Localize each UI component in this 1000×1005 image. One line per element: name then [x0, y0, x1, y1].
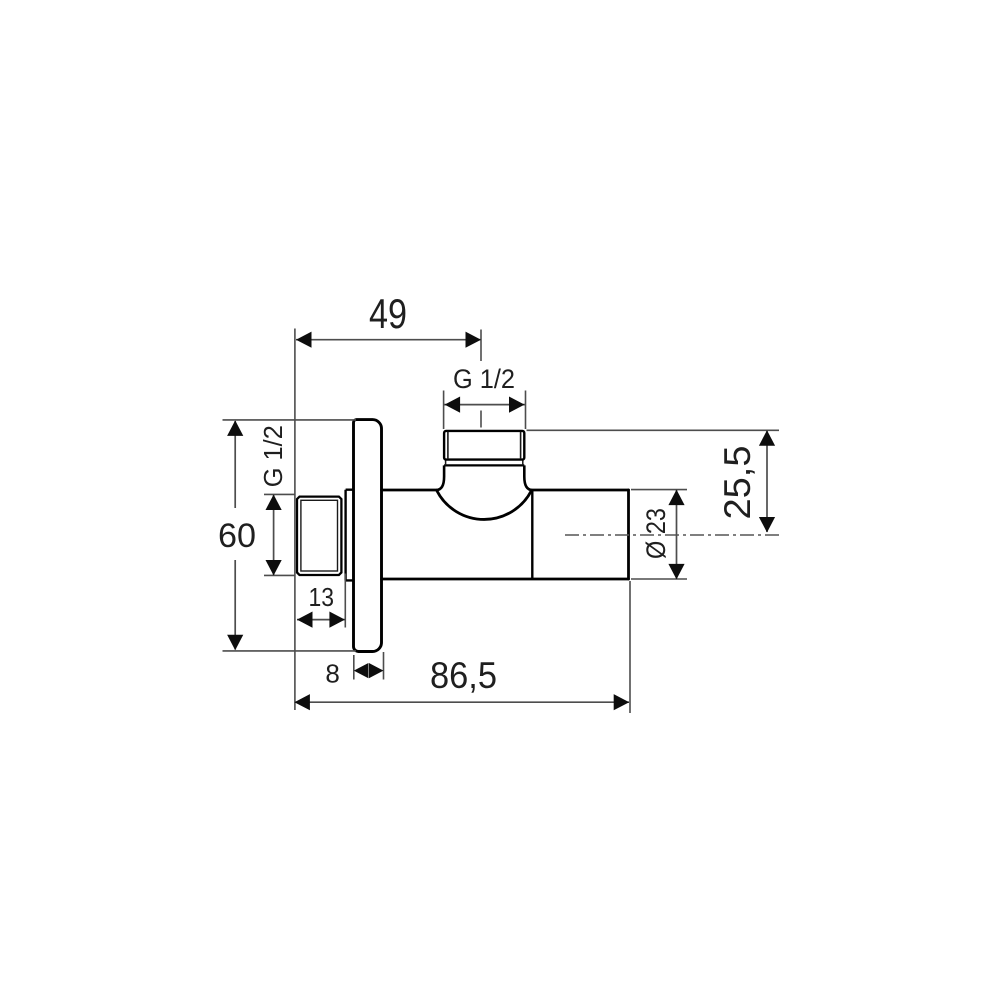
collar behind flange — [346, 490, 354, 581]
dim 13 arrow right — [329, 612, 345, 628]
svg-text:25,5: 25,5 — [717, 446, 758, 520]
dim 86,5 arrow right — [614, 694, 630, 710]
svg-text:Ø 23: Ø 23 — [641, 508, 671, 559]
dim 49 arrow right — [466, 332, 482, 348]
neck right with fillet — [524, 465, 532, 490]
neck left with fillet — [436, 465, 444, 490]
centerline dash-dot — [565, 534, 780, 536]
svg-text:G 1/2: G 1/2 — [453, 364, 515, 394]
dim 25,5 arrow down — [759, 517, 775, 533]
main body rectangle — [382, 490, 629, 579]
dim G1/2 left arrow up — [266, 495, 282, 511]
left thread G1/2 outer chamfered — [297, 497, 341, 575]
dim G1/2 left extension lines — [264, 494, 295, 575]
dim 49 line — [296, 339, 481, 341]
dim 25,5 line — [766, 431, 768, 533]
dim 49 extension line left (long) — [294, 329, 296, 711]
dim 25,5 extension line top — [527, 429, 780, 431]
dim 86,5 extension line right — [629, 581, 631, 713]
dim G1/2 top extension lines — [444, 391, 526, 430]
svg-text:60: 60 — [218, 517, 256, 555]
dim 13 arrow left — [297, 612, 313, 628]
dim 60 arrow down — [227, 635, 243, 651]
dim G1/2 left arrow down — [266, 560, 282, 576]
dim 86,5 arrow left — [294, 694, 310, 710]
wall flange — [354, 420, 382, 652]
dim 8 extension lines — [354, 652, 384, 680]
dim G1/2 left line — [273, 495, 275, 575]
dim 13 line — [297, 619, 345, 621]
svg-text:8: 8 — [325, 658, 339, 688]
svg-text:49: 49 — [369, 290, 407, 337]
top thread G1/2 outer — [444, 431, 524, 460]
dim 60 arrow up — [227, 420, 243, 436]
dim 13 extension line right — [344, 574, 346, 628]
dim dia23 arrow down — [668, 564, 684, 580]
dim 60 line upper — [234, 421, 236, 508]
dim dia23 line — [676, 490, 678, 579]
body division line — [531, 491, 533, 579]
dim dia23 extension lines — [631, 490, 687, 579]
left thread relief inner rect — [301, 500, 338, 571]
svg-text:13: 13 — [309, 582, 335, 612]
dim G1/2 top line — [444, 404, 526, 406]
dome transition curve — [437, 491, 532, 520]
dim 86,5 line — [295, 701, 629, 703]
svg-text:G 1/2: G 1/2 — [258, 425, 288, 487]
dim 49 extension line right — [480, 330, 482, 362]
dim G1/2 top arrow left — [445, 397, 461, 413]
svg-text:86,5: 86,5 — [430, 655, 497, 696]
dim 25,5 arrow up — [759, 430, 775, 446]
dim G1/2 top center tick — [480, 411, 482, 428]
dim 49 arrow left — [296, 332, 312, 348]
dim 60 extension lines — [223, 420, 357, 651]
dim dia23 arrow up — [668, 490, 684, 506]
top thread groove sides — [446, 460, 523, 466]
dim G1/2 top arrow right — [509, 397, 525, 413]
top thread groove bottom line — [444, 464, 524, 466]
dim 8 arrows diamond — [354, 663, 369, 678]
dim 60 line lower — [234, 560, 236, 650]
top thread relief lines — [448, 432, 521, 459]
